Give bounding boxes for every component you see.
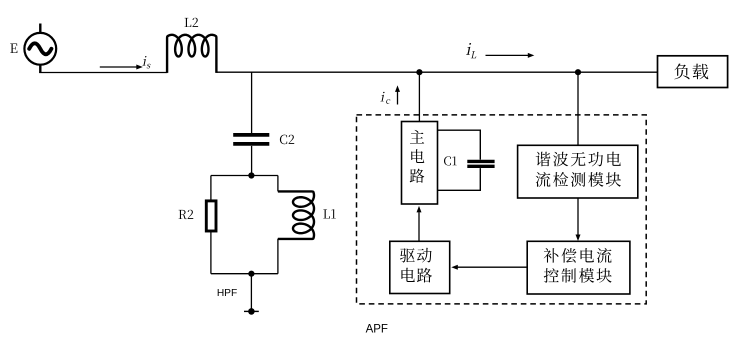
source bottom lead	[39, 65, 41, 73]
label L1	[323, 209, 330, 218]
junction node (detection tap)	[575, 69, 581, 75]
wire: tap to main circuit	[418, 72, 420, 121]
current arrow i_s	[100, 66, 138, 68]
wire: top rail down to L1 lead	[277, 176, 279, 192]
current arrow i_L	[486, 54, 529, 56]
source label E	[10, 44, 17, 53]
detection box 谐波无功电流检测模块	[518, 145, 638, 198]
ground	[248, 308, 255, 315]
wire: bottom rail to ground	[250, 274, 252, 312]
label i_L	[466, 43, 472, 55]
wire: R2 to bottom rail	[210, 232, 212, 274]
label C1	[444, 156, 451, 165]
wire: L2 to load	[216, 71, 657, 73]
wire: main circuit to C1 top	[438, 130, 481, 159]
resistor R2	[206, 201, 216, 231]
wire: top rail to R2	[210, 176, 212, 201]
load box (negative/load)	[658, 56, 728, 88]
inductor L2	[167, 35, 216, 73]
label C2	[280, 135, 287, 145]
label 负载	[674, 63, 689, 79]
label L2	[185, 18, 192, 27]
sine symbol	[29, 43, 51, 54]
arrow: detection to control	[577, 198, 579, 236]
current arrow i_c	[397, 91, 399, 104]
svg-text:HPF: HPF	[217, 288, 237, 299]
label R2	[179, 210, 187, 219]
voltage source E top lead	[39, 24, 41, 34]
wire: tap to detection box	[577, 72, 579, 145]
main circuit box 主电路 U1	[402, 122, 438, 205]
wire: HPF bottom rail	[211, 273, 278, 275]
arrow: driver to main circuit	[418, 212, 420, 241]
junction node (APF tap)	[416, 69, 422, 75]
capacitor C2	[233, 133, 269, 137]
arrow: control to driver	[457, 266, 527, 268]
APF dashed boundary	[357, 115, 647, 304]
inductor L1	[278, 191, 314, 239]
control box 补偿电流控制模块	[527, 241, 630, 294]
wire: HPF top rail	[211, 175, 278, 177]
label 补偿电流控制模块	[544, 248, 559, 263]
label i_c	[380, 92, 385, 102]
wire: C1 bottom to main circuit	[438, 168, 481, 190]
label 主电路	[410, 130, 424, 144]
label 驱动电路	[400, 248, 415, 262]
junction node (C2 / HPF top)	[248, 172, 254, 178]
wire: source to L2	[39, 72, 167, 74]
label i_s	[142, 56, 147, 66]
junction node (HPF bottom)	[248, 271, 254, 277]
wire: L1 to bottom rail	[277, 239, 279, 274]
driver box 驱动电路	[390, 241, 450, 293]
svg-text:APF: APF	[366, 324, 388, 336]
wire: tap to C2	[251, 72, 253, 133]
voltage source E (AC)	[24, 33, 56, 65]
label 谐波无功电流检测模块	[536, 152, 551, 167]
wire: C2 to HPF node	[251, 146, 253, 176]
capacitor C1	[467, 160, 494, 163]
